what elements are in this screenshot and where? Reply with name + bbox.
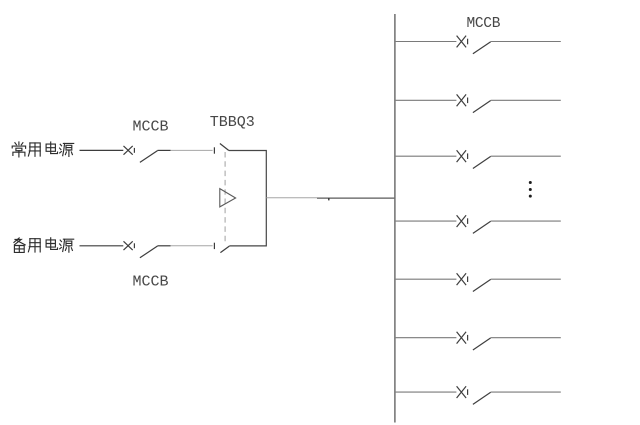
svg-text:MCCB: MCCB [133,118,169,135]
svg-text:MCCB: MCCB [133,273,169,290]
svg-text:TBBQ3: TBBQ3 [210,114,255,131]
svg-text:MCCB: MCCB [467,16,501,32]
